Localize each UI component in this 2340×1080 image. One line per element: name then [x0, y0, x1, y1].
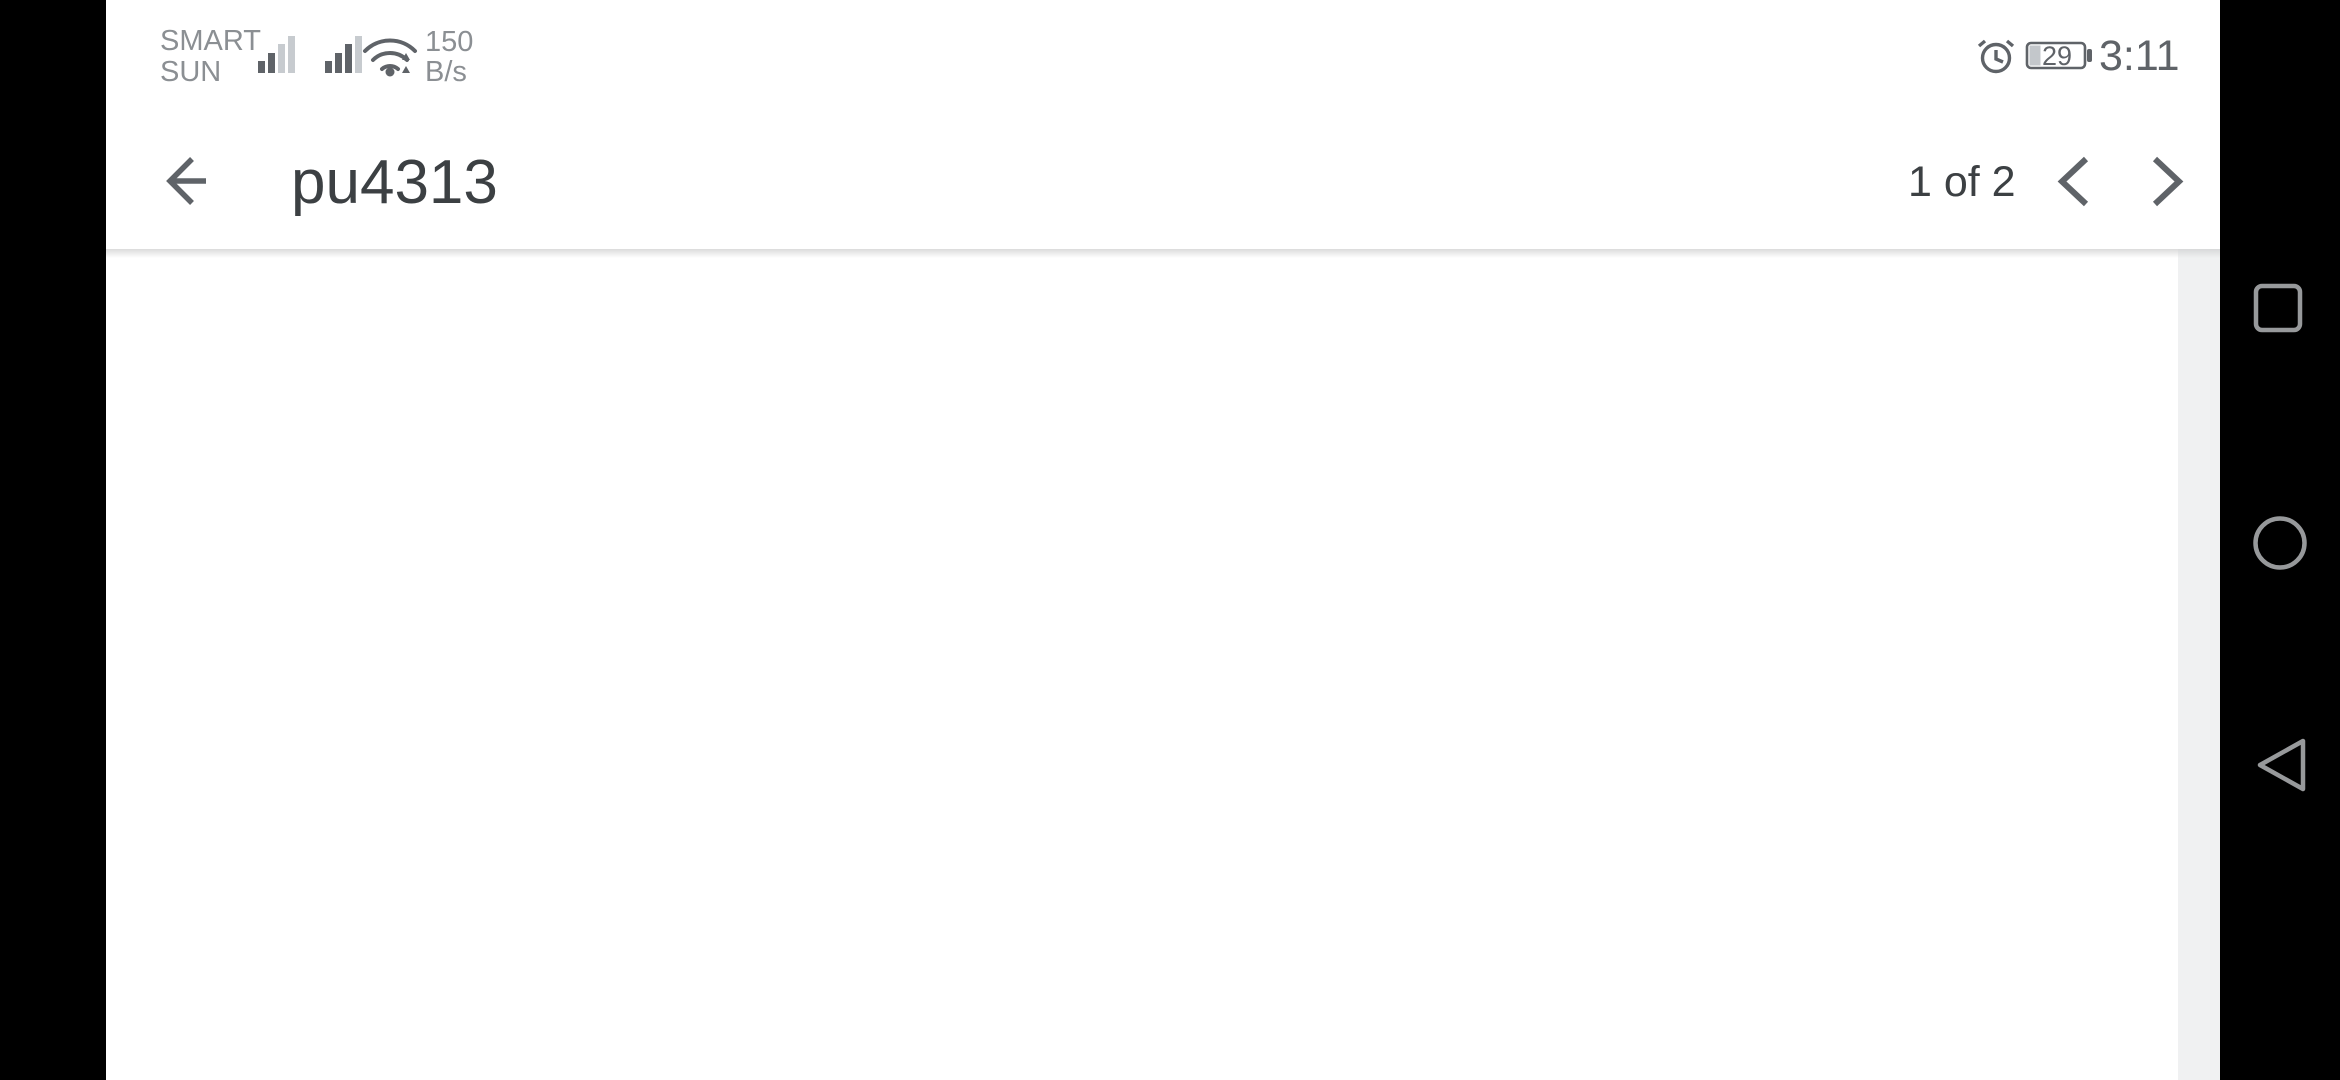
svg-text:pu4313: pu4313: [291, 148, 498, 217]
prev chevron: [2062, 159, 2086, 204]
nav square: [2256, 286, 2300, 330]
alarm icon: [1979, 41, 2013, 72]
grey area right of page: [2178, 249, 2220, 1080]
nav triangle: [2260, 741, 2303, 789]
svg-text:SMART: SMART: [160, 25, 261, 57]
svg-text:1 of 2: 1 of 2: [1908, 158, 2016, 206]
battery: [2027, 43, 2085, 68]
wifi icon: [365, 40, 415, 69]
nav circle: [2256, 519, 2305, 568]
back arrow: [170, 159, 206, 203]
right nav bar: [2220, 0, 2340, 1080]
signal icon 2: [325, 36, 362, 73]
svg-text:3:11: 3:11: [2099, 32, 2180, 80]
svg-text:29: 29: [2042, 41, 2072, 71]
svg-text:B/s: B/s: [425, 56, 467, 88]
next chevron: [2155, 159, 2179, 204]
svg-text:150: 150: [425, 26, 473, 58]
svg-text:SUN: SUN: [160, 56, 221, 88]
toolbar shadow: [106, 249, 2220, 258]
signal icon 1: [258, 36, 295, 73]
left notch black strip: [0, 0, 106, 1080]
status bar + toolbar: [106, 0, 2220, 249]
